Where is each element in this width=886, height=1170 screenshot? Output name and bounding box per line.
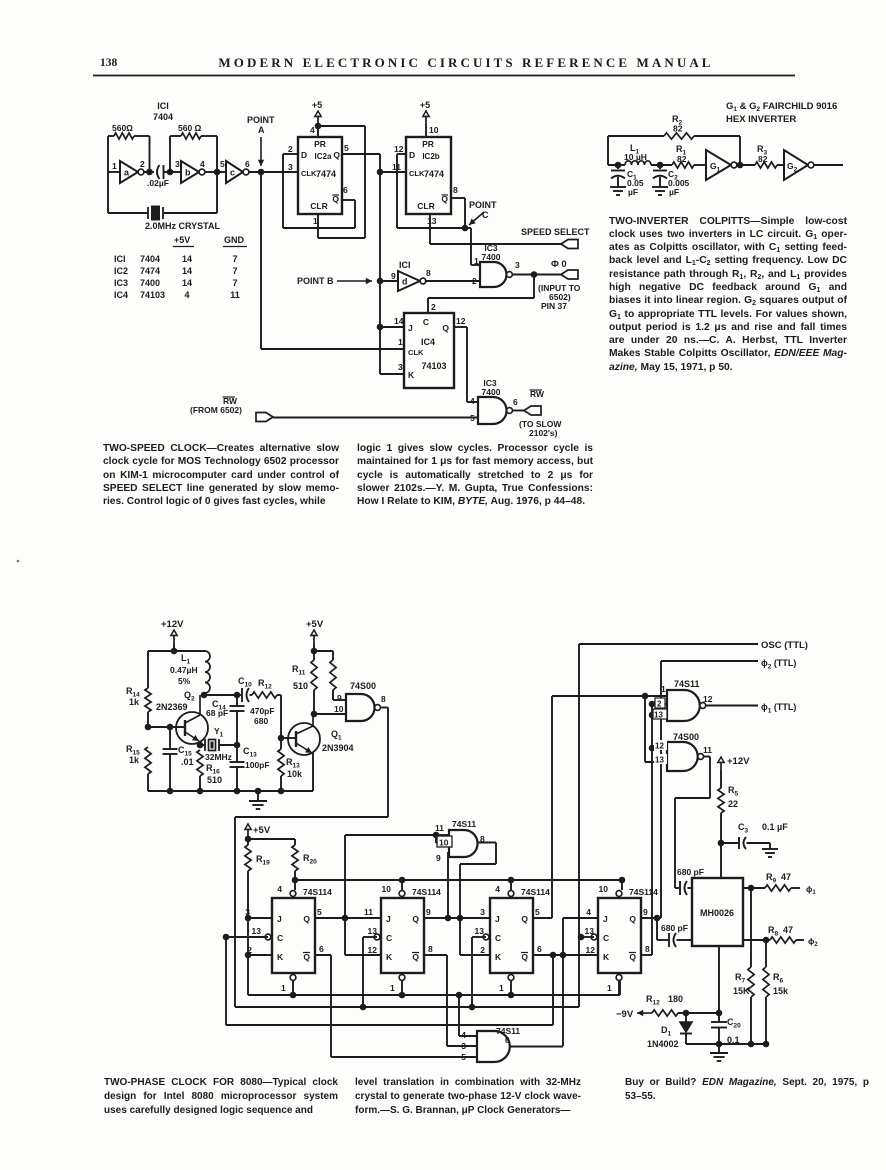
svg-text:R8: R8 — [768, 925, 779, 938]
svg-text:2: 2 — [288, 144, 293, 154]
svg-text:1k: 1k — [129, 697, 140, 707]
svg-text:R9: R9 — [766, 872, 777, 885]
svg-text:12: 12 — [368, 945, 378, 955]
svg-text:ϕ2: ϕ2 — [808, 936, 818, 948]
resistor R6 15k — [763, 967, 769, 997]
wire FF1 C from lower line — [226, 936, 268, 938]
junction C14 C10 node — [234, 692, 241, 699]
svg-text:G1: G1 — [710, 161, 721, 174]
flip-flop IC2a 7474 — [298, 137, 342, 214]
svg-text:.01: .01 — [181, 757, 194, 767]
svg-text:CLK: CLK — [301, 169, 317, 178]
svg-text:4: 4 — [461, 1030, 466, 1040]
junction +12V rail — [171, 648, 178, 655]
capacitor .02uF — [157, 165, 160, 179]
svg-text:C13: C13 — [243, 746, 257, 759]
svg-text:13: 13 — [475, 926, 485, 936]
svg-text:Q: Q — [629, 914, 636, 924]
wire OSC TTL — [579, 643, 758, 645]
svg-text:15K: 15K — [733, 986, 750, 996]
svg-text:Q: Q — [629, 952, 636, 962]
svg-text:32MHz: 32MHz — [205, 752, 232, 762]
svg-text:Q: Q — [412, 914, 419, 924]
wire FF1 J K from R19 — [245, 915, 252, 922]
svg-text:6: 6 — [343, 185, 348, 195]
resistor R20 — [292, 845, 298, 871]
junction +5V R19 R20 — [245, 836, 252, 843]
svg-text:K: K — [386, 952, 393, 962]
diode D1 1N4002 — [685, 1013, 687, 1022]
resistor R5 22 — [720, 779, 722, 788]
svg-text:µF: µF — [669, 187, 679, 197]
svg-text:MODERN ELECTRONIC CIRCUITS REF: MODERN ELECTRONIC CIRCUITS REFERENCE MAN… — [218, 55, 713, 70]
svg-text:+5: +5 — [420, 100, 430, 110]
svg-text:3: 3 — [175, 159, 180, 169]
svg-text:3: 3 — [480, 907, 485, 917]
wire point A down to IC4 CLK — [260, 172, 262, 349]
svg-text:10: 10 — [334, 704, 344, 714]
svg-text:10k: 10k — [287, 769, 303, 779]
svg-text:C3: C3 — [738, 822, 749, 835]
svg-text:K: K — [495, 952, 502, 962]
svg-text:12: 12 — [394, 144, 404, 154]
wire R12 down to Q1 base — [280, 695, 282, 738]
wire FF2 J K tie — [344, 918, 346, 955]
svg-text:47: 47 — [781, 872, 791, 882]
svg-text:6: 6 — [537, 944, 542, 954]
svg-text:C: C — [386, 933, 392, 943]
wire phi0 to IC4 C — [533, 274, 535, 298]
svg-text:510: 510 — [207, 775, 222, 785]
caption colpitts — [609, 215, 847, 375]
svg-text:13: 13 — [654, 711, 663, 720]
svg-text:8: 8 — [428, 944, 433, 954]
svg-text:7474: 7474 — [316, 169, 336, 179]
wire RW to gate pin 5 — [273, 417, 478, 419]
svg-text:ϕ2 (TTL): ϕ2 (TTL) — [761, 658, 796, 671]
svg-text:Q: Q — [442, 323, 449, 333]
svg-text:4: 4 — [470, 396, 475, 406]
svg-text:12: 12 — [655, 742, 664, 751]
svg-text:2: 2 — [140, 159, 145, 169]
svg-text:G2: G2 — [787, 161, 798, 174]
resistor R19 — [245, 845, 251, 871]
flip-flop 74S114 #2 — [381, 898, 424, 973]
wire main row inverters — [108, 171, 120, 173]
svg-text:11: 11 — [435, 823, 444, 833]
wire FF3 C down — [472, 936, 486, 938]
svg-text:47: 47 — [783, 925, 793, 935]
svg-text:2: 2 — [472, 276, 477, 286]
resistor R3 82 — [755, 162, 777, 168]
svg-text:138: 138 — [100, 57, 118, 69]
wire clock 74S00 output to FF clock line — [381, 707, 388, 709]
svg-text:5: 5 — [344, 143, 349, 153]
wire phi1 output — [743, 887, 765, 889]
flip-flop IC2b 7474 — [406, 137, 451, 214]
ground C3 — [762, 848, 778, 850]
svg-text:J: J — [495, 914, 500, 924]
inductor L1 10uH — [625, 161, 651, 165]
svg-text:3: 3 — [288, 162, 293, 172]
wire FF2 C down — [363, 936, 377, 938]
svg-text:22: 22 — [728, 799, 738, 809]
svg-text:L1: L1 — [181, 653, 191, 666]
capacitor C1 0.05uF to ground — [617, 165, 619, 169]
svg-text:ϕ1: ϕ1 — [806, 884, 816, 896]
ground bottom — [718, 1044, 720, 1053]
capacitor C15 .01 — [169, 727, 171, 749]
svg-text:POINT: POINT — [247, 115, 275, 125]
capacitor C20 0.1 — [711, 1021, 727, 1023]
svg-text:2: 2 — [431, 302, 436, 312]
node C1 tap — [615, 162, 622, 169]
svg-text:R20: R20 — [303, 853, 317, 866]
svg-text:9: 9 — [436, 853, 441, 863]
caption two-phase col2 — [355, 1076, 581, 1118]
svg-text:ϕ1 (TTL): ϕ1 (TTL) — [761, 702, 796, 715]
svg-text:R6: R6 — [773, 972, 784, 985]
caption two-phase col3 — [625, 1076, 869, 1104]
svg-text:ICI: ICI — [399, 260, 411, 270]
svg-text:(FROM 6502): (FROM 6502) — [190, 405, 242, 415]
svg-text:Q: Q — [412, 952, 419, 962]
svg-text:MH0026: MH0026 — [700, 908, 734, 918]
resistor R11 510 — [311, 660, 317, 690]
node POINT A — [258, 169, 265, 176]
svg-text:68 pF: 68 pF — [206, 708, 228, 718]
svg-text:74S11: 74S11 — [452, 819, 476, 829]
resistor R1 82 — [672, 162, 694, 168]
svg-text:74S114: 74S114 — [303, 887, 332, 897]
wire FF4 J K tie from 74S11b out — [562, 918, 564, 1046]
wire FF4 Q phi2 TTL — [642, 917, 661, 919]
wire phi2 output — [743, 939, 770, 941]
node C2 tap — [651, 164, 672, 166]
svg-text:10: 10 — [429, 125, 439, 135]
svg-text:PR: PR — [422, 139, 434, 149]
wire IC4 Q to gate IC3b — [454, 326, 467, 328]
svg-text:1N4002: 1N4002 — [647, 1039, 679, 1049]
svg-text:+5V: +5V — [306, 619, 324, 630]
svg-text:PR: PR — [314, 139, 326, 149]
resistor R7 15K — [750, 888, 752, 967]
ground oscillator rail — [148, 790, 313, 792]
svg-text:2102's): 2102's) — [529, 428, 558, 438]
wire FF3 Qbar to FF4 K and down — [532, 954, 598, 956]
inverter G2 — [784, 150, 808, 180]
svg-text:10 µH: 10 µH — [624, 152, 647, 162]
svg-text:11: 11 — [703, 745, 712, 755]
svg-text:IC3: IC3 — [114, 278, 128, 288]
IC MH0026 driver — [692, 878, 743, 946]
svg-text:680: 680 — [254, 716, 268, 726]
svg-text:11: 11 — [364, 907, 373, 917]
svg-text:J: J — [603, 914, 608, 924]
svg-text:Φ 0: Φ 0 — [551, 259, 567, 270]
svg-text:PIN 37: PIN 37 — [541, 301, 567, 311]
svg-text:74S114: 74S114 — [412, 887, 441, 897]
capacitor C14 68pF — [204, 694, 237, 696]
svg-text:4: 4 — [200, 159, 205, 169]
svg-text:POINT: POINT — [469, 200, 497, 210]
junction PR +5 — [315, 123, 322, 130]
svg-text:GND: GND — [224, 235, 245, 245]
svg-text:IC4: IC4 — [114, 290, 128, 300]
junction bottom node — [716, 1041, 723, 1048]
svg-text:D1: D1 — [661, 1025, 672, 1038]
svg-text:Y1: Y1 — [214, 726, 224, 739]
svg-text:13: 13 — [368, 926, 378, 936]
svg-text:10: 10 — [599, 884, 609, 894]
resistor R15 1k — [145, 747, 151, 774]
wire FF4 C from OSC line — [581, 936, 594, 938]
svg-text:10: 10 — [439, 838, 449, 848]
wire colpitts main — [608, 164, 625, 166]
svg-text:R13: R13 — [286, 757, 300, 770]
junction Q5 to IC2b CLK — [377, 169, 384, 176]
svg-text:2N3904: 2N3904 — [322, 743, 354, 753]
node POINT C — [462, 225, 469, 232]
svg-text:R12: R12 — [646, 994, 660, 1007]
svg-text:1: 1 — [607, 983, 612, 993]
svg-text:HEX INVERTER: HEX INVERTER — [726, 114, 796, 125]
svg-text:7404: 7404 — [153, 112, 173, 122]
junction after inverter a — [146, 169, 153, 176]
header rule — [93, 75, 795, 77]
junction Q2 collector node — [201, 692, 208, 699]
wire 74S11a out to FF3 J K — [478, 842, 496, 844]
svg-text:+5V: +5V — [174, 235, 190, 245]
resistor R8 47 — [770, 937, 796, 943]
wire phi1 TTL — [706, 705, 758, 707]
wire 74S00d out to 680pF upper — [704, 756, 710, 758]
svg-text:5: 5 — [220, 159, 225, 169]
svg-text:7400: 7400 — [482, 252, 501, 262]
wire G2 output — [814, 164, 843, 166]
svg-text:d: d — [402, 277, 408, 287]
svg-text:6: 6 — [505, 1035, 510, 1045]
svg-text:ICI: ICI — [157, 101, 169, 111]
resistor 560ohm feedback a — [107, 136, 109, 172]
svg-text:R7: R7 — [735, 972, 746, 985]
wire pin3 — [447, 1045, 477, 1047]
scan speck — [17, 560, 20, 563]
svg-text:100pF: 100pF — [245, 760, 270, 770]
svg-text:8: 8 — [381, 694, 386, 704]
svg-text:+5: +5 — [312, 100, 322, 110]
capacitor C3 0.1uF — [721, 842, 738, 844]
svg-text:7: 7 — [232, 266, 237, 276]
caption two-speed clock col1 — [103, 442, 339, 508]
wire FF3 Q up to 74S11c pin1 — [532, 917, 552, 919]
svg-text:1: 1 — [112, 161, 117, 171]
svg-text:Q: Q — [521, 952, 528, 962]
svg-text:Q1: Q1 — [331, 729, 342, 742]
ground C1 — [610, 186, 626, 188]
crystal 2.0MHz — [107, 172, 109, 213]
svg-text:POINT B: POINT B — [297, 276, 334, 286]
svg-text:C15: C15 — [178, 745, 192, 758]
resistor R16 510 — [197, 750, 203, 776]
svg-text:1: 1 — [281, 983, 286, 993]
svg-text:J: J — [408, 323, 413, 333]
junction +5V R11 — [311, 648, 318, 655]
caption two-phase col1 — [104, 1076, 338, 1118]
svg-text:.02µF: .02µF — [147, 178, 169, 188]
svg-text:560Ω: 560Ω — [112, 123, 133, 133]
svg-text:7400: 7400 — [140, 278, 160, 288]
svg-text:D: D — [409, 150, 415, 160]
junction crystal right — [234, 742, 241, 749]
wire MH0026 Vee C20 — [718, 946, 720, 1022]
svg-text:10: 10 — [382, 884, 392, 894]
svg-text:9: 9 — [337, 693, 342, 703]
wire FF1 Qbar to 74S11b pin5 — [314, 954, 331, 956]
flip-flop 74S114 #4 — [598, 898, 641, 973]
svg-text:9: 9 — [391, 271, 396, 281]
svg-text:7474: 7474 — [424, 169, 444, 179]
svg-text:+12V: +12V — [727, 756, 750, 767]
svg-text:13: 13 — [252, 926, 262, 936]
svg-text:9: 9 — [426, 907, 431, 917]
svg-text:IC2: IC2 — [114, 266, 128, 276]
svg-text:D: D — [301, 150, 307, 160]
svg-text:1: 1 — [661, 684, 666, 694]
svg-text:CLK: CLK — [409, 169, 425, 178]
wire clear line pin1 — [248, 994, 620, 996]
svg-text:ICI: ICI — [114, 254, 126, 264]
svg-text:0.1 µF: 0.1 µF — [762, 822, 788, 832]
svg-text:1: 1 — [398, 337, 403, 347]
svg-text:K: K — [277, 952, 284, 962]
svg-text:C: C — [603, 933, 609, 943]
svg-text:Q: Q — [333, 150, 340, 160]
svg-text:560 Ω: 560 Ω — [178, 123, 202, 133]
svg-text:9: 9 — [643, 907, 648, 917]
svg-text:11: 11 — [230, 290, 240, 300]
node POINT B — [377, 278, 384, 285]
svg-text:15k: 15k — [773, 986, 789, 996]
resistor R2 82 feedback — [607, 136, 609, 165]
svg-text:Q: Q — [521, 914, 528, 924]
svg-text:OSC (TTL): OSC (TTL) — [761, 640, 808, 651]
svg-text:82: 82 — [673, 124, 683, 134]
resistor R9 47 — [765, 885, 791, 891]
wire 74S11b pin4 from clear line — [458, 995, 460, 1036]
svg-text:74S00: 74S00 — [673, 732, 699, 742]
flip-flop 74S114 #3 — [490, 898, 533, 973]
svg-text:12: 12 — [703, 694, 713, 704]
svg-text:6: 6 — [319, 944, 324, 954]
svg-text:680 pF: 680 pF — [661, 923, 688, 933]
svg-text:SPEED SELECT: SPEED SELECT — [521, 227, 590, 237]
svg-text:1: 1 — [390, 983, 395, 993]
svg-text:1: 1 — [474, 256, 479, 266]
svg-text:82: 82 — [677, 154, 687, 164]
svg-text:14: 14 — [394, 316, 404, 326]
svg-text:8: 8 — [426, 268, 431, 278]
svg-text:IC4: IC4 — [421, 337, 435, 347]
svg-text:6: 6 — [513, 397, 518, 407]
svg-text:7: 7 — [232, 254, 237, 264]
junction base node — [145, 724, 152, 731]
svg-text:+5V: +5V — [253, 825, 271, 836]
node G1 output — [737, 164, 755, 166]
svg-text:680 pF: 680 pF — [677, 867, 704, 877]
svg-text:J: J — [386, 914, 391, 924]
junction Q1 collector — [311, 711, 318, 718]
svg-text:510: 510 — [293, 681, 308, 691]
svg-text:R12: R12 — [258, 678, 272, 691]
capacitor C10 470pF — [237, 694, 241, 696]
svg-text:4: 4 — [277, 884, 282, 894]
svg-text:14: 14 — [182, 278, 192, 288]
svg-text:1k: 1k — [129, 755, 140, 765]
svg-text:6: 6 — [245, 159, 250, 169]
resistor R14 1k — [147, 651, 149, 688]
svg-text:180: 180 — [668, 994, 683, 1004]
svg-text:7474: 7474 — [140, 266, 160, 276]
svg-text:2: 2 — [657, 700, 662, 709]
svg-text:a: a — [124, 168, 130, 178]
svg-text:C20: C20 — [727, 1017, 741, 1030]
svg-text:12: 12 — [586, 945, 596, 955]
wire point C to speed select and gate pin1 — [465, 227, 471, 229]
svg-text:1: 1 — [499, 983, 504, 993]
inverter G1 — [706, 150, 731, 180]
svg-text:8: 8 — [645, 944, 650, 954]
svg-text:A: A — [258, 125, 265, 135]
capacitor C13 100pF — [236, 745, 238, 762]
transistor Q1 2N3904 — [288, 723, 320, 755]
svg-text:IC2b: IC2b — [422, 152, 439, 161]
svg-text:R11: R11 — [292, 664, 306, 677]
svg-text:R16: R16 — [206, 763, 220, 776]
resistor R12 180 — [652, 1010, 678, 1016]
wire FF2 Q to pin 9 and FF3 J — [423, 917, 460, 919]
svg-text:74S11: 74S11 — [674, 679, 700, 689]
svg-text:µF: µF — [628, 187, 638, 197]
svg-text:5%: 5% — [178, 676, 191, 686]
svg-text:Q: Q — [303, 914, 310, 924]
resistor R13 10k — [278, 749, 284, 776]
svg-text:Q: Q — [303, 952, 310, 962]
svg-text:5: 5 — [317, 907, 322, 917]
svg-text:−9V: −9V — [616, 1009, 634, 1020]
wire RW output — [513, 410, 524, 412]
svg-text:CLR: CLR — [417, 201, 434, 211]
svg-text:C10: C10 — [238, 676, 252, 689]
wire CLR tie high loop — [318, 125, 365, 127]
svg-text:+12V: +12V — [161, 619, 184, 630]
svg-text:4: 4 — [310, 125, 315, 135]
wire phi0 output — [512, 274, 561, 276]
svg-text:3: 3 — [398, 362, 403, 372]
junction Q1 base node — [278, 735, 285, 742]
flip-flop IC4 74103 — [404, 313, 454, 388]
svg-text:2.0MHz CRYSTAL: 2.0MHz CRYSTAL — [145, 221, 221, 231]
junction after inverter b — [214, 169, 221, 176]
capacitor C2 0.005uF to ground — [659, 165, 661, 169]
svg-text:12: 12 — [456, 316, 466, 326]
svg-text:4: 4 — [495, 884, 500, 894]
svg-text:13: 13 — [427, 216, 437, 226]
svg-text:74S114: 74S114 — [629, 887, 658, 897]
flip-flop 74S114 #1 — [272, 898, 315, 973]
svg-text:b: b — [185, 168, 191, 178]
ground C2 — [652, 186, 668, 188]
